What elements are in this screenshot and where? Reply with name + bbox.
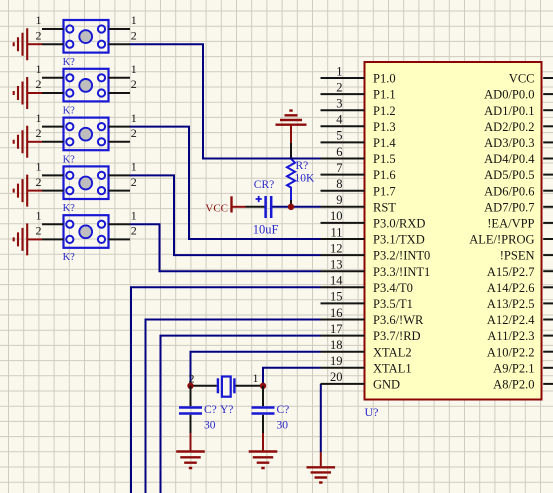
wire (ground stub, red) [320, 452, 322, 466]
wire (ground stub to K4 pin 2) [27, 190, 42, 192]
svg-text:1: 1 [336, 64, 342, 78]
pin 31 ALE/!PROG (right) [469, 233, 553, 247]
svg-text:A10/P2.2: A10/P2.2 [487, 345, 535, 359]
svg-text:4: 4 [336, 113, 343, 127]
wire U? pin 20 GND down [320, 384, 322, 452]
svg-text:VCC: VCC [205, 203, 228, 215]
svg-text:20: 20 [330, 370, 343, 384]
op IC U? (8051 MCU) body [365, 62, 542, 400]
pin 10 P3.0/RXD (left) [321, 209, 426, 230]
pin 4 P1.3 (left) [321, 113, 396, 134]
svg-text:1: 1 [131, 62, 137, 76]
svg-text:1: 1 [131, 160, 137, 174]
svg-text:13: 13 [330, 258, 343, 272]
switch K5 [36, 208, 137, 247]
pin 11 P3.1/TXD (left) [321, 225, 425, 246]
svg-text:1: 1 [131, 208, 137, 222]
svg-text:AD5/P0.5: AD5/P0.5 [484, 168, 534, 182]
ground (below U? pin 20) [307, 467, 336, 482]
ground G1 (power ground, rotated left, at switch K1 pin 2) [14, 28, 28, 60]
wire ground to resistor R? [290, 143, 292, 158]
svg-text:2: 2 [36, 28, 42, 42]
svg-text:1: 1 [36, 62, 42, 76]
svg-text:1: 1 [253, 371, 259, 385]
wire crystal right lead [236, 385, 264, 387]
svg-text:K?: K? [63, 57, 76, 68]
svg-text:2: 2 [36, 126, 42, 140]
pin 37 A11/P2.3 (right) [487, 329, 553, 343]
svg-text:A12/P2.4: A12/P2.4 [487, 313, 535, 327]
pin 2 P1.1 (left) [321, 80, 396, 101]
wire U? pin 19 XTAL1 to crystal [263, 368, 321, 386]
wire VCC to capacitor CR? [232, 206, 246, 208]
svg-text:A9/P2.1: A9/P2.1 [493, 361, 534, 375]
junction node RST [288, 204, 294, 210]
pin 40 A8/P2.0 (right) [493, 378, 553, 392]
svg-text:30: 30 [204, 420, 216, 432]
pin 17 P3.7/!RD (left) [321, 322, 421, 343]
pin 23 AD1/P0.1 (right) [484, 104, 553, 118]
pin 16 P3.6/!WR (left) [321, 306, 425, 327]
junction node XTAL1 [260, 383, 266, 389]
switch K3 [36, 111, 137, 150]
svg-text:A11/P2.3: A11/P2.3 [487, 329, 534, 343]
pin 14 P3.4/T0 (left) [321, 274, 413, 295]
svg-text:10K: 10K [295, 173, 316, 185]
svg-text:10uF: 10uF [253, 223, 279, 237]
wire U? pin 18 XTAL2 to crystal [191, 352, 321, 386]
wire junction to capacitor C? left [190, 386, 192, 406]
svg-text:K?: K? [63, 106, 76, 117]
svg-text:P1.7: P1.7 [373, 184, 396, 198]
svg-text:P1.0: P1.0 [373, 72, 396, 86]
wire from bottom edge to U? pin 16 P3.6 [146, 320, 321, 493]
capacitor CR? 10uF (polarized) [256, 196, 272, 218]
pin 28 AD6/P0.6 (right) [484, 184, 553, 198]
svg-text:P3.6/!WR: P3.6/!WR [373, 313, 424, 327]
svg-text:2: 2 [36, 77, 42, 91]
pin 19 XTAL1 (left) [321, 354, 412, 375]
junction node XTAL2 [187, 383, 193, 389]
svg-text:2: 2 [131, 175, 137, 189]
pin 33 A15/P2.7 (right) [487, 265, 553, 279]
pin 25 AD3/P0.3 (right) [484, 136, 553, 150]
svg-text:K?: K? [63, 252, 76, 263]
pin 9 RST (left) [321, 193, 397, 214]
svg-text:6: 6 [336, 145, 342, 159]
svg-text:10: 10 [330, 209, 343, 223]
svg-text:19: 19 [330, 354, 343, 368]
svg-text:R?: R? [296, 160, 309, 172]
svg-text:CR?: CR? [254, 179, 274, 191]
svg-text:P1.4: P1.4 [373, 136, 396, 150]
ground G5 (power ground, rotated left, at switch K5 pin 2) [14, 223, 28, 255]
wire (ground stub to K5 pin 2) [27, 238, 42, 240]
svg-text:AD2/P0.2: AD2/P0.2 [484, 120, 534, 134]
pin 18 XTAL2 (left) [321, 338, 412, 359]
svg-text:P3.4/T0: P3.4/T0 [373, 281, 413, 295]
wire capacitor CR? left pin [246, 206, 265, 208]
svg-text:P3.5/T1: P3.5/T1 [373, 297, 413, 311]
svg-text:AD3/P0.3: AD3/P0.3 [484, 136, 534, 150]
svg-text:ALE/!PROG: ALE/!PROG [469, 233, 534, 247]
svg-text:AD4/P0.4: AD4/P0.4 [484, 152, 535, 166]
ground (below C? right) [249, 452, 278, 469]
svg-text:AD7/P0.7: AD7/P0.7 [484, 200, 534, 214]
svg-text:11: 11 [330, 225, 342, 239]
wire (ground stub, red) [290, 126, 292, 143]
svg-text:!PSEN: !PSEN [500, 249, 535, 263]
pin 35 A13/P2.5 (right) [487, 297, 553, 311]
pin 7 P1.6 (left) [321, 161, 396, 182]
svg-text:P1.6: P1.6 [373, 168, 396, 182]
svg-text:A13/P2.5: A13/P2.5 [487, 297, 535, 311]
svg-text:P3.7/!RD: P3.7/!RD [373, 329, 421, 343]
svg-text:15: 15 [330, 290, 343, 304]
svg-text:Y?: Y? [220, 404, 233, 416]
capacitor C? 30 (left) [179, 408, 202, 414]
svg-text:C?: C? [204, 404, 217, 416]
svg-text:1: 1 [36, 208, 42, 222]
resistor R? 10K [287, 159, 295, 200]
ground G2 (power ground, rotated left, at switch K2 pin 2) [14, 77, 28, 109]
svg-text:30: 30 [277, 420, 289, 432]
crystal Y? [218, 377, 235, 397]
svg-text:P1.2: P1.2 [373, 104, 396, 118]
svg-text:1: 1 [131, 111, 137, 125]
svg-text:2: 2 [36, 175, 42, 189]
svg-text:K?: K? [63, 154, 76, 165]
VCC bar [230, 196, 232, 212]
svg-text:P3.1/TXD: P3.1/TXD [373, 233, 425, 247]
svg-text:VCC: VCC [509, 72, 535, 86]
svg-text:2: 2 [131, 224, 137, 238]
wire net K1.2 to U? pin 6 P1.5 [130, 44, 321, 158]
svg-text:1: 1 [36, 13, 42, 27]
svg-text:!EA/VPP: !EA/VPP [487, 217, 534, 231]
ground (below C? left) [176, 452, 205, 469]
svg-text:14: 14 [330, 274, 343, 288]
svg-text:A8/P2.0: A8/P2.0 [493, 378, 534, 392]
ground (power ground, rotated up, above resistor R?) [276, 111, 307, 125]
svg-text:P1.1: P1.1 [373, 88, 396, 102]
pin 27 AD5/P0.5 (right) [484, 168, 553, 182]
wire resistor to RST node [290, 200, 292, 207]
svg-text:1: 1 [36, 160, 42, 174]
pin 30 !EA/VPP (right) [487, 217, 553, 231]
svg-text:P1.3: P1.3 [373, 120, 396, 134]
pin 20 GND (left) [321, 370, 401, 391]
wire net K4.1 to U? pin 12 P3.2 [130, 175, 321, 255]
pin 24 AD2/P0.2 (right) [484, 120, 553, 134]
svg-text:2: 2 [131, 126, 137, 140]
svg-text:P3.0/RXD: P3.0/RXD [373, 217, 425, 231]
pin 8 P1.7 (left) [321, 177, 396, 198]
svg-text:16: 16 [330, 306, 343, 320]
switch K4 [36, 160, 137, 199]
svg-text:18: 18 [330, 338, 343, 352]
pin 29 AD7/P0.7 (right) [484, 200, 553, 214]
pin 6 P1.5 (left) [321, 145, 396, 166]
capacitor C? 30 (right) [252, 408, 275, 414]
svg-text:P3.2/!INT0: P3.2/!INT0 [373, 249, 430, 263]
pin 1 P1.0 (left) [321, 64, 396, 85]
svg-text:1: 1 [131, 13, 137, 27]
pin 39 A9/P2.1 (right) [493, 361, 553, 375]
pin 22 AD0/P0.0 (right) [484, 88, 553, 102]
svg-text:P3.3/!INT1: P3.3/!INT1 [373, 265, 430, 279]
wire (ground stub to K2 pin 2) [27, 92, 42, 94]
pin 12 P3.2/!INT0 (left) [321, 241, 431, 262]
svg-text:5: 5 [336, 129, 342, 143]
svg-text:K?: K? [63, 203, 76, 214]
svg-text:AD1/P0.1: AD1/P0.1 [484, 104, 534, 118]
wire from bottom edge to U? pin 17 P3.7 [161, 336, 321, 493]
svg-text:AD0/P0.0: AD0/P0.0 [484, 88, 534, 102]
svg-text:GND: GND [373, 378, 400, 392]
svg-text:A15/P2.7: A15/P2.7 [487, 265, 535, 279]
svg-text:A14/P2.6: A14/P2.6 [487, 281, 535, 295]
svg-text:AD6/P0.6: AD6/P0.6 [484, 184, 534, 198]
wire capacitor to ground (left) [190, 415, 192, 433]
svg-text:XTAL2: XTAL2 [373, 345, 412, 359]
wire (ground stub to K3 pin 2) [27, 141, 42, 143]
svg-text:2: 2 [36, 224, 42, 238]
wire from bottom edge to U? pin 14 P3.4 [131, 287, 321, 493]
ground G3 (power ground, rotated left, at switch K3 pin 2) [14, 126, 28, 158]
svg-text:C?: C? [277, 404, 290, 416]
svg-text:2: 2 [131, 28, 137, 42]
pin 13 P3.3/!INT1 (left) [321, 258, 431, 279]
pin 5 P1.4 (left) [321, 129, 397, 150]
wire crystal left lead [191, 385, 217, 387]
wire (ground stub to K1 pin 2) [27, 43, 42, 45]
pin 38 A10/P2.2 (right) [487, 345, 553, 359]
svg-text:U?: U? [365, 405, 379, 419]
switch K1 [36, 13, 137, 52]
wire net K3.1 to U? pin 11 P3.1 [130, 127, 321, 239]
svg-text:P1.5: P1.5 [373, 152, 396, 166]
svg-text:XTAL1: XTAL1 [373, 361, 412, 375]
pin 36 A12/P2.4 (right) [487, 313, 553, 327]
wire net K5.1 to U? pin 13 P3.3 [130, 224, 321, 271]
switch K2 [36, 62, 137, 101]
svg-text:9: 9 [336, 193, 342, 207]
pin 32 !PSEN (right) [500, 249, 553, 263]
svg-text:RST: RST [373, 200, 396, 214]
svg-text:3: 3 [336, 97, 342, 111]
wire capacitor to ground (right) [262, 415, 264, 433]
wire junction to capacitor C? right [262, 386, 264, 406]
pin 15 P3.5/T1 (left) [321, 290, 413, 311]
pin 26 AD4/P0.4 (right) [484, 152, 553, 166]
pin 3 P1.2 (left) [321, 97, 396, 118]
ground G4 (power ground, rotated left, at switch K4 pin 2) [14, 175, 28, 207]
svg-text:7: 7 [336, 161, 342, 175]
svg-text:2: 2 [336, 80, 342, 94]
pin 34 A14/P2.6 (right) [487, 281, 553, 295]
svg-text:8: 8 [336, 177, 342, 191]
pin 21 VCC (right) [509, 72, 553, 86]
svg-text:12: 12 [330, 241, 343, 255]
svg-text:17: 17 [330, 322, 343, 336]
svg-text:1: 1 [36, 111, 42, 125]
svg-text:2: 2 [131, 77, 137, 91]
wire capacitor to RST junction to U? pin 9 [272, 206, 320, 208]
